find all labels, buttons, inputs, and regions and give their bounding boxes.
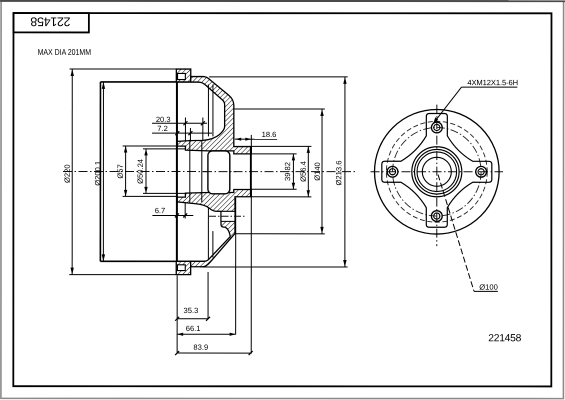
top wall cone and hub section <box>177 77 251 154</box>
stud hole <box>221 211 235 221</box>
bottom lip section <box>176 261 190 274</box>
dim dia213.6 <box>209 76 348 78</box>
wire bore step lines <box>189 140 191 204</box>
wire inner edge lines top <box>207 84 209 136</box>
svg-text:Ø56.4: Ø56.4 <box>299 161 308 182</box>
hub nose face <box>250 146 252 197</box>
leader dia100 <box>438 175 474 292</box>
centerline vertical <box>436 105 438 246</box>
dim dia50.24 <box>145 149 147 194</box>
bearing cavity <box>208 151 230 194</box>
drum top surface <box>100 81 208 83</box>
centerline horizontal <box>371 171 504 173</box>
dim dia200.1 <box>102 82 104 261</box>
svg-text:Ø140: Ø140 <box>313 162 322 181</box>
wire ext dia220 bottom <box>69 274 176 276</box>
dim dia140 <box>235 108 325 110</box>
svg-text:4XM12X1.5-6H: 4XM12X1.5-6H <box>467 78 518 87</box>
bottom wall cone flange and hub section <box>177 189 251 266</box>
drum rim outer wall <box>99 82 101 261</box>
top lip section <box>176 69 190 82</box>
flange outer circle dia140 <box>374 109 499 234</box>
dashed circle <box>386 121 487 222</box>
centerline over cavity <box>203 171 236 173</box>
svg-text:20.3: 20.3 <box>156 115 171 124</box>
svg-text:Ø57: Ø57 <box>116 164 125 178</box>
wire ext dia57 <box>123 145 178 147</box>
svg-text:Ø100: Ø100 <box>479 283 498 292</box>
wire inner edge lines bottom <box>207 207 209 259</box>
svg-text:39.82: 39.82 <box>283 162 292 181</box>
svg-text:MAX DIA 201MM: MAX DIA 201MM <box>38 47 92 57</box>
svg-text:18.6: 18.6 <box>262 130 277 139</box>
flange lobed outline <box>382 113 492 227</box>
svg-text:221458: 221458 <box>30 14 70 28</box>
dim dia57 <box>125 146 127 196</box>
bolt circle dia100 <box>392 127 481 216</box>
svg-text:35.3: 35.3 <box>184 306 199 315</box>
dim dia56.4 <box>251 145 311 147</box>
wire ext dia50.24 <box>143 148 186 150</box>
drum back face <box>176 69 178 275</box>
svg-text:221458: 221458 <box>488 333 521 344</box>
svg-text:Ø50.24: Ø50.24 <box>136 159 145 184</box>
svg-text:Ø213.6: Ø213.6 <box>334 161 343 186</box>
bolt hole N <box>431 122 442 133</box>
wire ext dia220 top <box>70 68 177 70</box>
dim dia220 <box>71 69 73 275</box>
bolt hole E <box>476 166 487 177</box>
hub rings <box>412 147 462 197</box>
stud axis <box>209 215 246 217</box>
centerline axis <box>63 171 356 173</box>
svg-text:Ø220: Ø220 <box>63 164 72 183</box>
svg-text:66.1: 66.1 <box>186 324 201 333</box>
title box <box>13 13 88 32</box>
bolt hole S <box>431 211 442 222</box>
wire ext bottom verticals <box>176 275 178 353</box>
bolt hole W <box>387 166 398 177</box>
leader M12 <box>433 87 461 123</box>
dim 39.82 <box>251 153 296 155</box>
svg-text:6.7: 6.7 <box>155 206 166 215</box>
svg-text:7.2: 7.2 <box>157 124 168 133</box>
svg-text:83.9: 83.9 <box>193 343 208 352</box>
drum bottom surface <box>100 260 208 262</box>
